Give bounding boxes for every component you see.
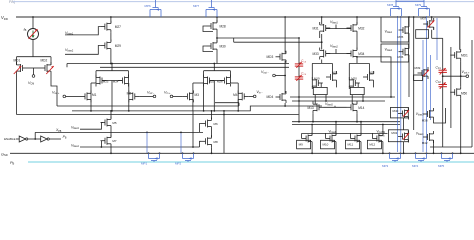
svg-text:MP8: MP8 bbox=[387, 3, 394, 7]
svg-text:M5: M5 bbox=[112, 121, 116, 125]
svg-text:CC3: CC3 bbox=[301, 59, 307, 64]
svg-text:MD4: MD4 bbox=[267, 95, 274, 99]
svg-text:Vref +: Vref + bbox=[52, 91, 60, 96]
svg-text:M37: M37 bbox=[421, 16, 427, 20]
svg-text:M13: M13 bbox=[307, 106, 313, 110]
svg-text:Vbias3: Vbias3 bbox=[71, 126, 79, 131]
svg-text:MP3: MP3 bbox=[382, 164, 389, 168]
svg-text:VDD: VDD bbox=[1, 15, 8, 21]
svg-text:M40: M40 bbox=[393, 109, 399, 113]
svg-text:PA): PA) bbox=[9, 0, 16, 4]
svg-text:M30: M30 bbox=[220, 45, 226, 49]
svg-text:M22: M22 bbox=[369, 71, 375, 75]
svg-text:MP2: MP2 bbox=[175, 161, 182, 165]
svg-text:Vbias1: Vbias1 bbox=[330, 20, 338, 25]
svg-text:M34: M34 bbox=[358, 52, 364, 56]
svg-text:M10: M10 bbox=[323, 143, 329, 147]
svg-text:M38: M38 bbox=[422, 118, 428, 122]
svg-text:IB: IB bbox=[24, 28, 27, 33]
svg-text:M32: M32 bbox=[358, 26, 364, 30]
svg-text:M3: M3 bbox=[195, 93, 200, 97]
svg-text:M11: M11 bbox=[348, 143, 354, 147]
svg-text:ENABLE: ENABLE bbox=[4, 137, 15, 141]
svg-text:M7: M7 bbox=[112, 139, 116, 143]
svg-text:Vref −: Vref − bbox=[147, 91, 155, 96]
svg-text:MD1: MD1 bbox=[14, 59, 21, 63]
svg-text:Vbias2: Vbias2 bbox=[385, 48, 393, 53]
svg-text:CC2: CC2 bbox=[436, 80, 442, 85]
svg-text:M50: M50 bbox=[461, 92, 467, 96]
svg-text:MP5: MP5 bbox=[438, 164, 445, 168]
svg-text:MP6: MP6 bbox=[145, 4, 152, 8]
svg-text:M27: M27 bbox=[115, 25, 121, 29]
svg-text:M14: M14 bbox=[358, 106, 364, 110]
svg-text:M36: M36 bbox=[398, 55, 404, 59]
svg-text:M24: M24 bbox=[113, 79, 119, 83]
svg-text:Vbias2: Vbias2 bbox=[65, 48, 74, 53]
svg-text:M28: M28 bbox=[220, 25, 226, 29]
svg-text:MP4: MP4 bbox=[412, 164, 419, 168]
svg-text:M9: M9 bbox=[299, 143, 303, 147]
svg-text:M21: M21 bbox=[332, 71, 338, 75]
svg-text:Vbias2: Vbias2 bbox=[330, 44, 338, 49]
svg-text:M19: M19 bbox=[314, 76, 320, 80]
svg-text:M20: M20 bbox=[351, 76, 357, 80]
svg-text:Vbias1: Vbias1 bbox=[385, 30, 393, 35]
svg-text:PB: PB bbox=[10, 161, 15, 166]
svg-text:M12: M12 bbox=[369, 143, 375, 147]
svg-text:VCM: VCM bbox=[28, 81, 34, 86]
svg-text:MD3: MD3 bbox=[267, 55, 274, 59]
svg-text:PB: PB bbox=[63, 135, 67, 140]
svg-text:Vin −: Vin − bbox=[256, 90, 263, 95]
svg-text:Vout −: Vout − bbox=[261, 70, 269, 75]
svg-text:M35: M35 bbox=[398, 35, 404, 39]
svg-text:GND: GND bbox=[1, 153, 8, 158]
svg-text:Vout +: Vout + bbox=[462, 70, 470, 75]
svg-text:M23: M23 bbox=[103, 79, 109, 83]
svg-text:M8: M8 bbox=[214, 140, 218, 144]
svg-text:M1: M1 bbox=[92, 93, 97, 97]
svg-text:M29: M29 bbox=[115, 44, 121, 48]
svg-text:M6: M6 bbox=[214, 122, 218, 126]
svg-text:XPB: XPB bbox=[55, 128, 62, 133]
svg-text:M33: M33 bbox=[312, 52, 318, 56]
svg-text:Vbias5: Vbias5 bbox=[325, 102, 333, 107]
svg-text:Vbias4: Vbias4 bbox=[71, 143, 79, 148]
svg-text:M43: M43 bbox=[391, 131, 397, 135]
svg-text:MP7: MP7 bbox=[193, 4, 200, 8]
svg-text:MP9: MP9 bbox=[415, 3, 422, 7]
svg-text:M39: M39 bbox=[415, 66, 421, 70]
svg-text:MD2: MD2 bbox=[41, 59, 48, 63]
svg-text:M4: M4 bbox=[233, 93, 238, 97]
svg-text:Vin +: Vin + bbox=[164, 91, 171, 96]
svg-text:MD1: MD1 bbox=[461, 54, 468, 58]
svg-text:M31: M31 bbox=[312, 26, 318, 30]
svg-text:M42: M42 bbox=[422, 141, 428, 145]
svg-text:M26: M26 bbox=[217, 79, 223, 83]
svg-text:MP1: MP1 bbox=[141, 161, 148, 165]
svg-text:CC1: CC1 bbox=[436, 66, 442, 71]
